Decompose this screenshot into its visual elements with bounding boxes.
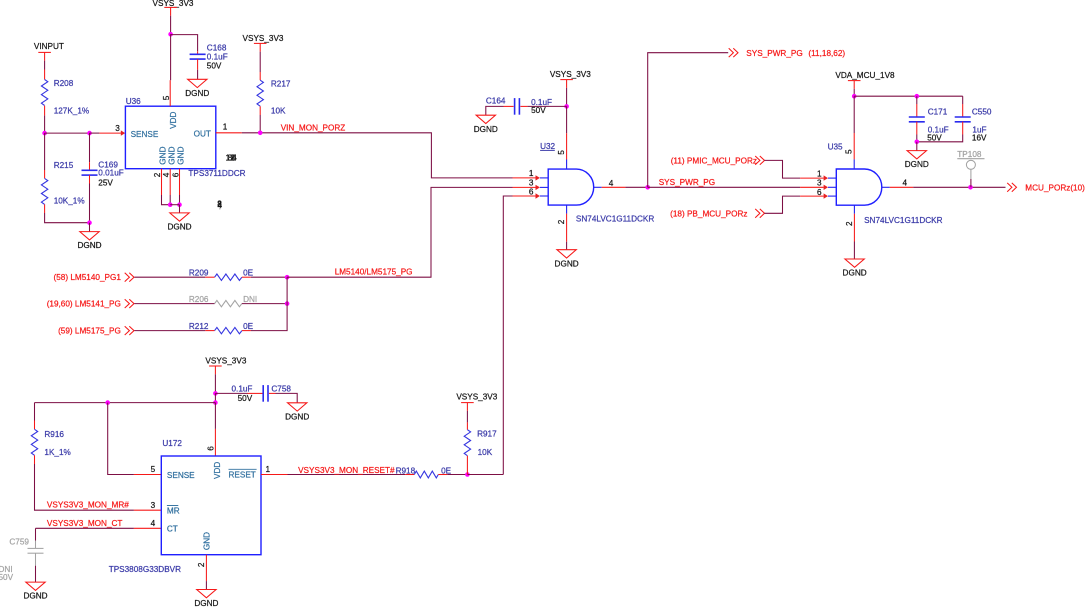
U172 pin 4 stub <box>134 527 161 529</box>
resistor R209 pin stub <box>242 276 251 278</box>
chevron PMIC_MCU_PORz <box>755 156 764 165</box>
U32 pin 1 stub <box>513 177 536 179</box>
wire VSYS to junction <box>214 374 216 393</box>
wire PB_MCU_PORz <box>765 196 801 213</box>
svg-text:6: 6 <box>529 188 534 197</box>
resistor R917 <box>464 430 470 456</box>
svg-text:10K_1%: 10K_1% <box>54 197 85 206</box>
U36 GND pin 6 stub <box>179 169 181 195</box>
svg-text:R209: R209 <box>189 269 209 278</box>
U35 pin 3 arrowhead <box>824 185 828 190</box>
svg-text:8: 8 <box>217 199 222 208</box>
junction C169 top <box>87 131 92 136</box>
U172 pin 6 stub <box>214 429 216 456</box>
svg-text:SN74LVC1G11DCKR: SN74LVC1G11DCKR <box>864 216 943 225</box>
wire node down to R215 <box>44 133 46 170</box>
wire junction to U35 pin5 tip <box>853 96 855 133</box>
resistor R208 pin stub <box>44 106 46 116</box>
svg-text:C758: C758 <box>271 385 291 394</box>
U172 pin 2 stub <box>205 555 207 581</box>
wire R206 to junction <box>242 303 287 305</box>
wire C171 bottom <box>916 135 918 142</box>
pin name GND of U172 <box>203 532 212 550</box>
U35 pin 2 blue stub <box>853 205 855 214</box>
wire CT to C759 <box>35 528 37 540</box>
wire sense node to U36 <box>45 132 90 134</box>
svg-text:10K: 10K <box>271 106 286 115</box>
wire VSYS_3V3 to junction <box>170 16 172 35</box>
wire junction to U36 VDD <box>170 34 172 80</box>
capacitor C550 pin stub <box>962 104 964 117</box>
svg-text:(59) LM5175_PG: (59) LM5175_PG <box>58 327 121 336</box>
wire caps to DGND <box>916 142 918 151</box>
wire C169 bottom <box>89 184 91 223</box>
pin number 2 of U36 <box>153 172 162 177</box>
resistor R209 <box>215 274 242 280</box>
pin number 6 of U36 <box>171 172 180 177</box>
wire junction to U32 pin5 tip <box>566 106 568 133</box>
svg-text:2: 2 <box>845 221 854 226</box>
svg-text:3: 3 <box>529 179 534 188</box>
svg-text:CT: CT <box>167 525 178 534</box>
wire to C168 <box>171 35 198 52</box>
IC U36 body <box>125 106 215 169</box>
wire C169 top <box>89 133 91 162</box>
U36 pin 3 stub <box>99 132 121 134</box>
U35 pin 6 blue stub <box>828 195 836 197</box>
op-amp U32 AND gate body <box>548 169 594 205</box>
resistor R1 pin stub <box>44 70 46 80</box>
ground DGND under U35 <box>843 259 867 278</box>
svg-text:C168: C168 <box>207 44 227 53</box>
svg-text:RESET: RESET <box>229 471 256 480</box>
svg-text:1: 1 <box>529 169 534 178</box>
svg-text:VSYS3V3_MON_CT: VSYS3V3_MON_CT <box>47 519 123 528</box>
power symbol VDA_MCU_1V8 <box>835 71 895 89</box>
wire VINPUT to R208 <box>44 61 46 70</box>
ground DGND under U172 <box>194 590 218 608</box>
resistor R918 pin stub <box>405 474 414 476</box>
svg-text:C759: C759 <box>9 538 29 547</box>
capacitor C171 pin stub <box>916 122 918 135</box>
wire R217 to OUT net <box>259 115 261 133</box>
svg-text:DGND: DGND <box>555 259 579 268</box>
wire C168 to DGND <box>197 70 199 80</box>
svg-text:3: 3 <box>151 501 156 510</box>
capacitor C171 <box>909 117 925 122</box>
svg-text:DGND: DGND <box>194 599 218 608</box>
junction TP108 <box>968 185 973 190</box>
wire VDA to junction <box>853 89 855 96</box>
svg-text:R208: R208 <box>54 79 74 88</box>
wire VSYS3V3_MON_RESET riser to U32 pin6 <box>503 196 512 475</box>
wire C759 to DGND <box>35 566 37 582</box>
capacitor C758 pin stub <box>248 392 263 394</box>
resistor R209 pin stub <box>205 276 214 278</box>
capacitor C550 <box>955 117 971 122</box>
chevron MCU_PORz output <box>1007 183 1016 192</box>
svg-text:DGND: DGND <box>285 412 309 421</box>
svg-text:0.1uF: 0.1uF <box>207 53 228 62</box>
wire U32 pin2 to DGND <box>566 242 568 250</box>
ground DGND under C168 <box>185 79 209 98</box>
svg-text:4: 4 <box>903 179 908 188</box>
wire junction to U172 pin6 tip <box>214 403 216 429</box>
pin number 5 of U35 <box>845 149 854 154</box>
resistor R918 <box>414 471 438 478</box>
chevron SYS_PWR_PG output <box>729 48 738 57</box>
svg-text:C164: C164 <box>486 97 506 106</box>
wire R212 to PG bus <box>251 277 287 330</box>
wire junction down <box>214 393 216 402</box>
power symbol VSYS_3V3 at R917 <box>456 392 497 411</box>
ground DGND under C758 <box>285 403 309 422</box>
svg-text:(19,60) LM5141_PG: (19,60) LM5141_PG <box>47 300 121 309</box>
U32 pin 2 blue stub <box>566 205 568 214</box>
wire pin4 to gnd net <box>169 195 171 205</box>
wire PMIC_MCU_PORz <box>765 160 801 178</box>
svg-text:(11) PMIC_MCU_PORz: (11) PMIC_MCU_PORz <box>671 157 757 166</box>
resistor R212 pin stub <box>205 330 214 332</box>
resistor R212 pin stub <box>242 330 251 332</box>
wire R916 top <box>34 403 36 421</box>
U35 pin 5 stub <box>853 133 855 159</box>
svg-text:2: 2 <box>197 562 206 567</box>
svg-text:0E: 0E <box>243 269 254 278</box>
wire LM5140_PG1 to R209 <box>134 276 205 278</box>
wire RESET to R918 <box>288 474 406 476</box>
chevron PB_MCU_PORz <box>755 209 764 218</box>
U36 GND pin 4 stub <box>169 169 171 195</box>
svg-text:R916: R916 <box>44 430 64 439</box>
resistor R918 pin stub <box>438 474 447 476</box>
svg-text:TP108: TP108 <box>957 150 982 159</box>
U36 OUT pin 1 stub <box>216 132 242 134</box>
resistor R917 pin stub <box>466 422 468 429</box>
wire VSYS to R917 <box>466 411 468 423</box>
U35 pin 1 blue stub <box>828 177 836 179</box>
ground DGND under U32 <box>555 250 579 269</box>
svg-text:C171: C171 <box>928 108 948 117</box>
U32 pin 6 blue stub <box>540 195 548 197</box>
chevron LM5140_PG1 <box>125 273 134 282</box>
svg-text:VIN_MON_PORZ: VIN_MON_PORZ <box>281 124 346 133</box>
junction SYS_PWR_PG <box>645 185 650 190</box>
svg-text:VDD: VDD <box>213 462 222 479</box>
wire SYS_PWR_PG riser <box>648 53 729 188</box>
U32 pin 1 blue stub <box>540 177 548 179</box>
svg-text:MCU_PORz(10): MCU_PORz(10) <box>1025 184 1085 193</box>
power symbol VSYS_3V3 at U36 <box>153 0 194 16</box>
wire VSYS rail to R916 <box>35 402 216 404</box>
junction C171 bottom <box>915 140 920 145</box>
svg-text:MR: MR <box>167 507 180 516</box>
wire to U36 SENSE pin <box>90 132 100 134</box>
capacitor C168 <box>190 54 206 59</box>
wire U32 output to SYS_PWR_PG node <box>625 186 647 188</box>
capacitor C759 pin stub <box>35 553 37 566</box>
pin number 2 of U32 <box>557 219 566 224</box>
junction PG net row2 <box>285 301 290 306</box>
resistor R215 pin stub <box>44 204 46 213</box>
svg-text:R212: R212 <box>189 322 209 331</box>
wire R918 to junction <box>447 474 467 476</box>
svg-text:2: 2 <box>557 219 566 224</box>
svg-text:DGND: DGND <box>905 160 929 169</box>
U35 pin 5 blue stub <box>853 159 855 169</box>
svg-text:16V: 16V <box>972 134 987 143</box>
svg-text:50V: 50V <box>927 134 942 143</box>
svg-text:50V: 50V <box>0 573 14 582</box>
wire R916 to MR row <box>35 464 134 510</box>
wire U172 pin2 to DGND <box>205 581 207 589</box>
wire VDA to caps <box>854 95 963 97</box>
underline of U32 <box>540 149 555 151</box>
svg-text:VSYS_3V3: VSYS_3V3 <box>550 70 591 79</box>
junction VDA_MCU_1V8 <box>852 94 857 99</box>
svg-text:1: 1 <box>817 169 822 178</box>
svg-text:SENSE: SENSE <box>131 130 159 139</box>
svg-text:DGND: DGND <box>167 223 191 232</box>
svg-text:R217: R217 <box>271 79 291 88</box>
U172 pin 5 stub <box>134 474 161 476</box>
wire MCU_PORz <box>913 186 1005 188</box>
U32 pin 1 arrowhead <box>536 175 540 180</box>
junction U36 gnd a <box>168 202 173 207</box>
svg-text:4: 4 <box>151 519 156 528</box>
svg-text:C550: C550 <box>972 108 992 117</box>
ground DGND under U36 <box>167 213 191 232</box>
resistor R917 pin stub <box>466 456 468 475</box>
capacitor C169 pin stub <box>89 162 91 170</box>
junction C758 <box>213 391 218 396</box>
svg-text:5: 5 <box>557 150 566 155</box>
wire R208 to node <box>44 116 46 134</box>
resistor R217 <box>257 80 263 106</box>
overline of RESET <box>229 468 257 470</box>
ground DGND under C759 <box>23 582 47 601</box>
junction U36 gnd b <box>177 202 182 207</box>
U32 pin 6 arrowhead <box>536 193 540 198</box>
svg-text:5: 5 <box>845 149 854 154</box>
svg-text:VSYS_3V3: VSYS_3V3 <box>153 0 194 8</box>
op-amp U35 AND gate body <box>836 169 882 205</box>
svg-text:DGND: DGND <box>843 269 867 278</box>
svg-text:SYS_PWR_PG: SYS_PWR_PG <box>746 49 802 58</box>
svg-text:DNI: DNI <box>243 295 257 304</box>
svg-text:2: 2 <box>153 172 162 177</box>
U32 pin 3 arrowhead <box>536 185 540 190</box>
svg-text:50V: 50V <box>207 61 222 70</box>
wire C550 top <box>962 96 964 104</box>
svg-text:VDA_MCU_1V8: VDA_MCU_1V8 <box>835 71 895 80</box>
svg-text:50V: 50V <box>238 394 253 403</box>
U36 pin 3 arrowhead <box>121 130 125 135</box>
U36 pin 5 stub <box>169 80 171 106</box>
svg-text:(11,18,62): (11,18,62) <box>808 49 845 58</box>
svg-text:5: 5 <box>151 465 156 474</box>
svg-text:LM5140/LM5175_PG: LM5140/LM5175_PG <box>335 268 413 277</box>
U35 output pin 4 stub <box>890 186 913 188</box>
U172 pin 1 stub <box>261 474 288 476</box>
U32 pin 6 stub <box>513 195 536 197</box>
U35 pin 3 blue stub <box>828 186 836 188</box>
ground DGND under C171 <box>905 151 929 170</box>
pin number 2 of U35 <box>845 221 854 226</box>
wire to DGND <box>89 223 91 232</box>
svg-text:4: 4 <box>609 179 614 188</box>
capacitor C169 <box>82 170 98 175</box>
svg-text:0.1uF: 0.1uF <box>232 385 253 394</box>
svg-text:6: 6 <box>817 188 822 197</box>
svg-text:TPS3711DDCR: TPS3711DDCR <box>188 169 245 178</box>
svg-text:R917: R917 <box>477 430 497 439</box>
pin name GND c <box>176 146 185 164</box>
capacitor C759 pin stub <box>35 541 37 549</box>
wire LM5141_PG to R206 <box>134 303 214 305</box>
pin number 5 of U36 <box>162 95 171 100</box>
U32 pin 3 blue stub <box>540 186 548 188</box>
resistor R916 pin stub <box>34 455 36 464</box>
svg-text:VINPUT: VINPUT <box>34 42 64 51</box>
wire C171 top <box>916 96 918 104</box>
svg-text:DGND: DGND <box>474 125 498 134</box>
capacitor C164 <box>515 98 520 115</box>
U35 pin 6 stub <box>800 195 824 197</box>
svg-text:3: 3 <box>817 179 822 188</box>
wire C550 bottom <box>917 135 963 142</box>
U35 pin 1 arrowhead <box>824 175 828 180</box>
chevron LM5141_PG <box>125 299 134 308</box>
capacitor C171 pin stub <box>916 104 918 117</box>
svg-text:GND: GND <box>176 146 185 164</box>
capacitor C758 pin stub <box>269 392 276 394</box>
svg-text:(18) PB_MCU_PORz: (18) PB_MCU_PORz <box>670 209 747 218</box>
pin number 6 of U172 <box>206 446 215 451</box>
svg-text:DGND: DGND <box>77 241 101 250</box>
wire junction to riser <box>467 474 503 476</box>
svg-text:50V: 50V <box>531 106 546 115</box>
U32 pin 5 stub <box>566 133 568 159</box>
svg-text:25V: 25V <box>98 179 113 188</box>
svg-text:VSYS3V3_MON_RESET#: VSYS3V3_MON_RESET# <box>298 466 395 475</box>
overline of MR <box>167 505 178 507</box>
wire U35 pin2 to DGND <box>853 242 855 260</box>
svg-text:U36: U36 <box>126 97 141 106</box>
svg-text:TPS3808G33DBVR: TPS3808G33DBVR <box>109 565 181 574</box>
wire gnd net <box>170 204 179 206</box>
svg-text:VSYS3V3_MON_MR#: VSYS3V3_MON_MR# <box>47 501 129 510</box>
resistor R916 pin stub <box>34 421 36 430</box>
wire LM5140/LM5175_PG riser <box>287 187 512 277</box>
wire VSYS_3V3 to junction <box>566 88 568 107</box>
wire R215 bottom to ground rail <box>45 213 90 223</box>
U32 pin 2 stub <box>566 214 568 242</box>
wire R209 to junction <box>251 276 287 278</box>
svg-text:U35: U35 <box>828 142 843 151</box>
junction ground rail <box>87 220 92 225</box>
wire to DGND <box>179 205 181 213</box>
junction PG net row1 <box>285 275 290 280</box>
svg-text:VSYS_3V3: VSYS_3V3 <box>456 392 497 401</box>
svg-text:0.01uF: 0.01uF <box>98 169 124 178</box>
pin name GND a <box>159 146 168 164</box>
U172 pin 3 stub <box>134 509 161 511</box>
U32 pin 3 stub <box>513 186 536 188</box>
svg-text:SN74LVC1G11DCKR: SN74LVC1G11DCKR <box>576 215 655 224</box>
pin number 4 of U36 <box>162 172 171 177</box>
pin number 2 of U172 <box>197 562 206 567</box>
U35 pin 3 stub <box>800 186 824 188</box>
svg-text:1: 1 <box>223 122 228 131</box>
svg-text:6: 6 <box>171 172 180 177</box>
pin name VDD of U172 <box>213 462 222 479</box>
junction SENSE feeder <box>105 400 110 405</box>
U32 output pin 4 blue stub <box>594 186 602 188</box>
power symbol VINPUT <box>34 42 64 61</box>
svg-text:GND: GND <box>167 146 176 164</box>
svg-text:6: 6 <box>206 446 215 451</box>
wire C758 left <box>215 392 247 394</box>
svg-text:GND: GND <box>203 532 212 550</box>
IC U172 body <box>161 456 261 555</box>
capacitor C758 <box>263 385 268 402</box>
svg-text:SYS_PWR_PG: SYS_PWR_PG <box>659 178 715 187</box>
wire C164 right <box>527 105 566 107</box>
pin name VDD <box>169 111 178 128</box>
svg-text:0E: 0E <box>441 466 452 475</box>
svg-text:VSYS_3V3: VSYS_3V3 <box>243 34 284 43</box>
test point TP108 pad <box>966 160 975 169</box>
resistor R215 <box>41 178 47 204</box>
svg-text:VSYS_3V3: VSYS_3V3 <box>205 356 246 365</box>
resistor R208 <box>41 80 47 106</box>
U35 output pin 4 blue stub <box>882 186 890 188</box>
wire to R217 <box>259 52 261 72</box>
svg-text:10K: 10K <box>478 448 493 457</box>
resistor R212 <box>215 327 242 333</box>
resistor R217 pin stub <box>259 106 261 115</box>
svg-text:5: 5 <box>162 95 171 100</box>
resistor R206 (DNI) <box>215 300 242 306</box>
resistor R916 <box>31 429 37 455</box>
svg-text:6: 6 <box>232 153 237 162</box>
capacitor C759 (DNI) <box>28 548 44 553</box>
svg-text:0E: 0E <box>243 322 254 331</box>
power symbol VSYS_3V3 at R217 <box>243 34 284 52</box>
capacitor C169 pin stub <box>89 175 91 183</box>
wire C164 to DGND <box>486 106 504 115</box>
junction VSYS_3V3 / C164 / U32 VDD <box>564 104 569 109</box>
svg-text:SENSE: SENSE <box>167 471 195 480</box>
svg-text:(58) LM5140_PG1: (58) LM5140_PG1 <box>54 273 122 282</box>
svg-text:DGND: DGND <box>185 89 209 98</box>
svg-text:127K_1%: 127K_1% <box>54 107 90 116</box>
U36 GND pin 2 stub <box>161 169 163 195</box>
power symbol VSYS_3V3 at U32 <box>550 70 591 88</box>
capacitor C168 pin stub <box>197 51 199 54</box>
capacitor C164 left pin stub <box>504 105 514 107</box>
chevron LM5175_PG <box>125 326 134 335</box>
svg-text:U172: U172 <box>162 439 182 448</box>
underline of TP108 <box>957 158 984 160</box>
junction VINPUT divider node <box>42 131 47 136</box>
svg-text:OUT: OUT <box>194 130 211 139</box>
junction VSYS_3V3 / C168 <box>168 32 173 37</box>
junction R916 rail <box>213 400 218 405</box>
wire pin6 to gnd net <box>179 195 181 205</box>
power symbol VSYS_3V3 at U172 <box>205 356 246 374</box>
